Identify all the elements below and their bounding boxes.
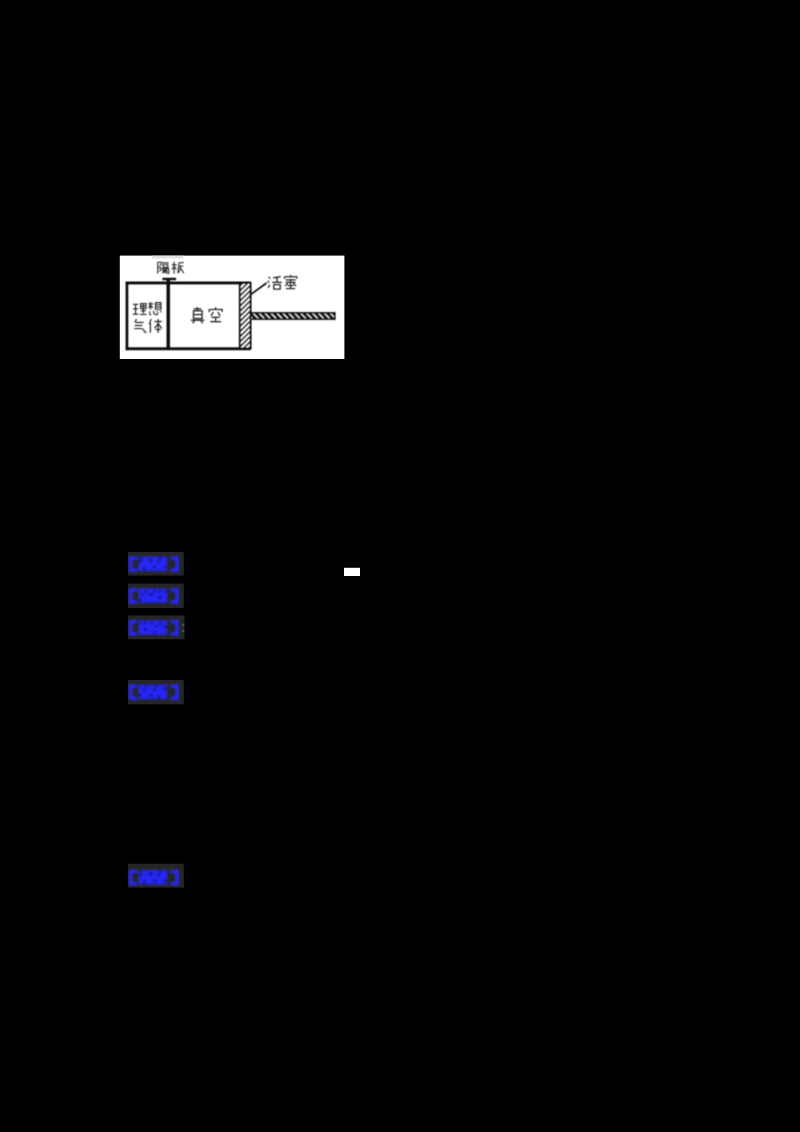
- white dash (answer blank): [344, 568, 360, 576]
- label qiti (gas): [134, 319, 146, 332]
- label lixiang (ideal): [133, 304, 147, 315]
- kaodian: [131, 557, 177, 570]
- partition (vertical): [167, 279, 171, 348]
- label huosai (piston): [268, 277, 282, 290]
- blue labels: [131, 557, 177, 884]
- rod: black bar with white thread dashes: [251, 313, 335, 319]
- container bottom wall: [126, 347, 251, 350]
- label zhenkong (vacuum): [191, 307, 204, 323]
- jieda: [131, 685, 177, 698]
- fenxi: [131, 621, 177, 634]
- container left wall: [126, 282, 129, 351]
- leader line to piston: [249, 283, 266, 295]
- label geban (partition): [158, 262, 169, 273]
- container top wall: [126, 282, 251, 285]
- faint gray colon after fenxi: [182, 624, 185, 627]
- figure text: [133, 262, 297, 333]
- partition T-bar: [162, 278, 176, 280]
- piston: hatched block: [240, 283, 251, 349]
- zhuanti: [131, 589, 177, 602]
- label highlight boxes (dark gray): [128, 552, 184, 576]
- faint gray smudge at top of panel: [152, 256, 184, 259]
- figure: white panel: [120, 256, 345, 359]
- dianping: [131, 871, 177, 884]
